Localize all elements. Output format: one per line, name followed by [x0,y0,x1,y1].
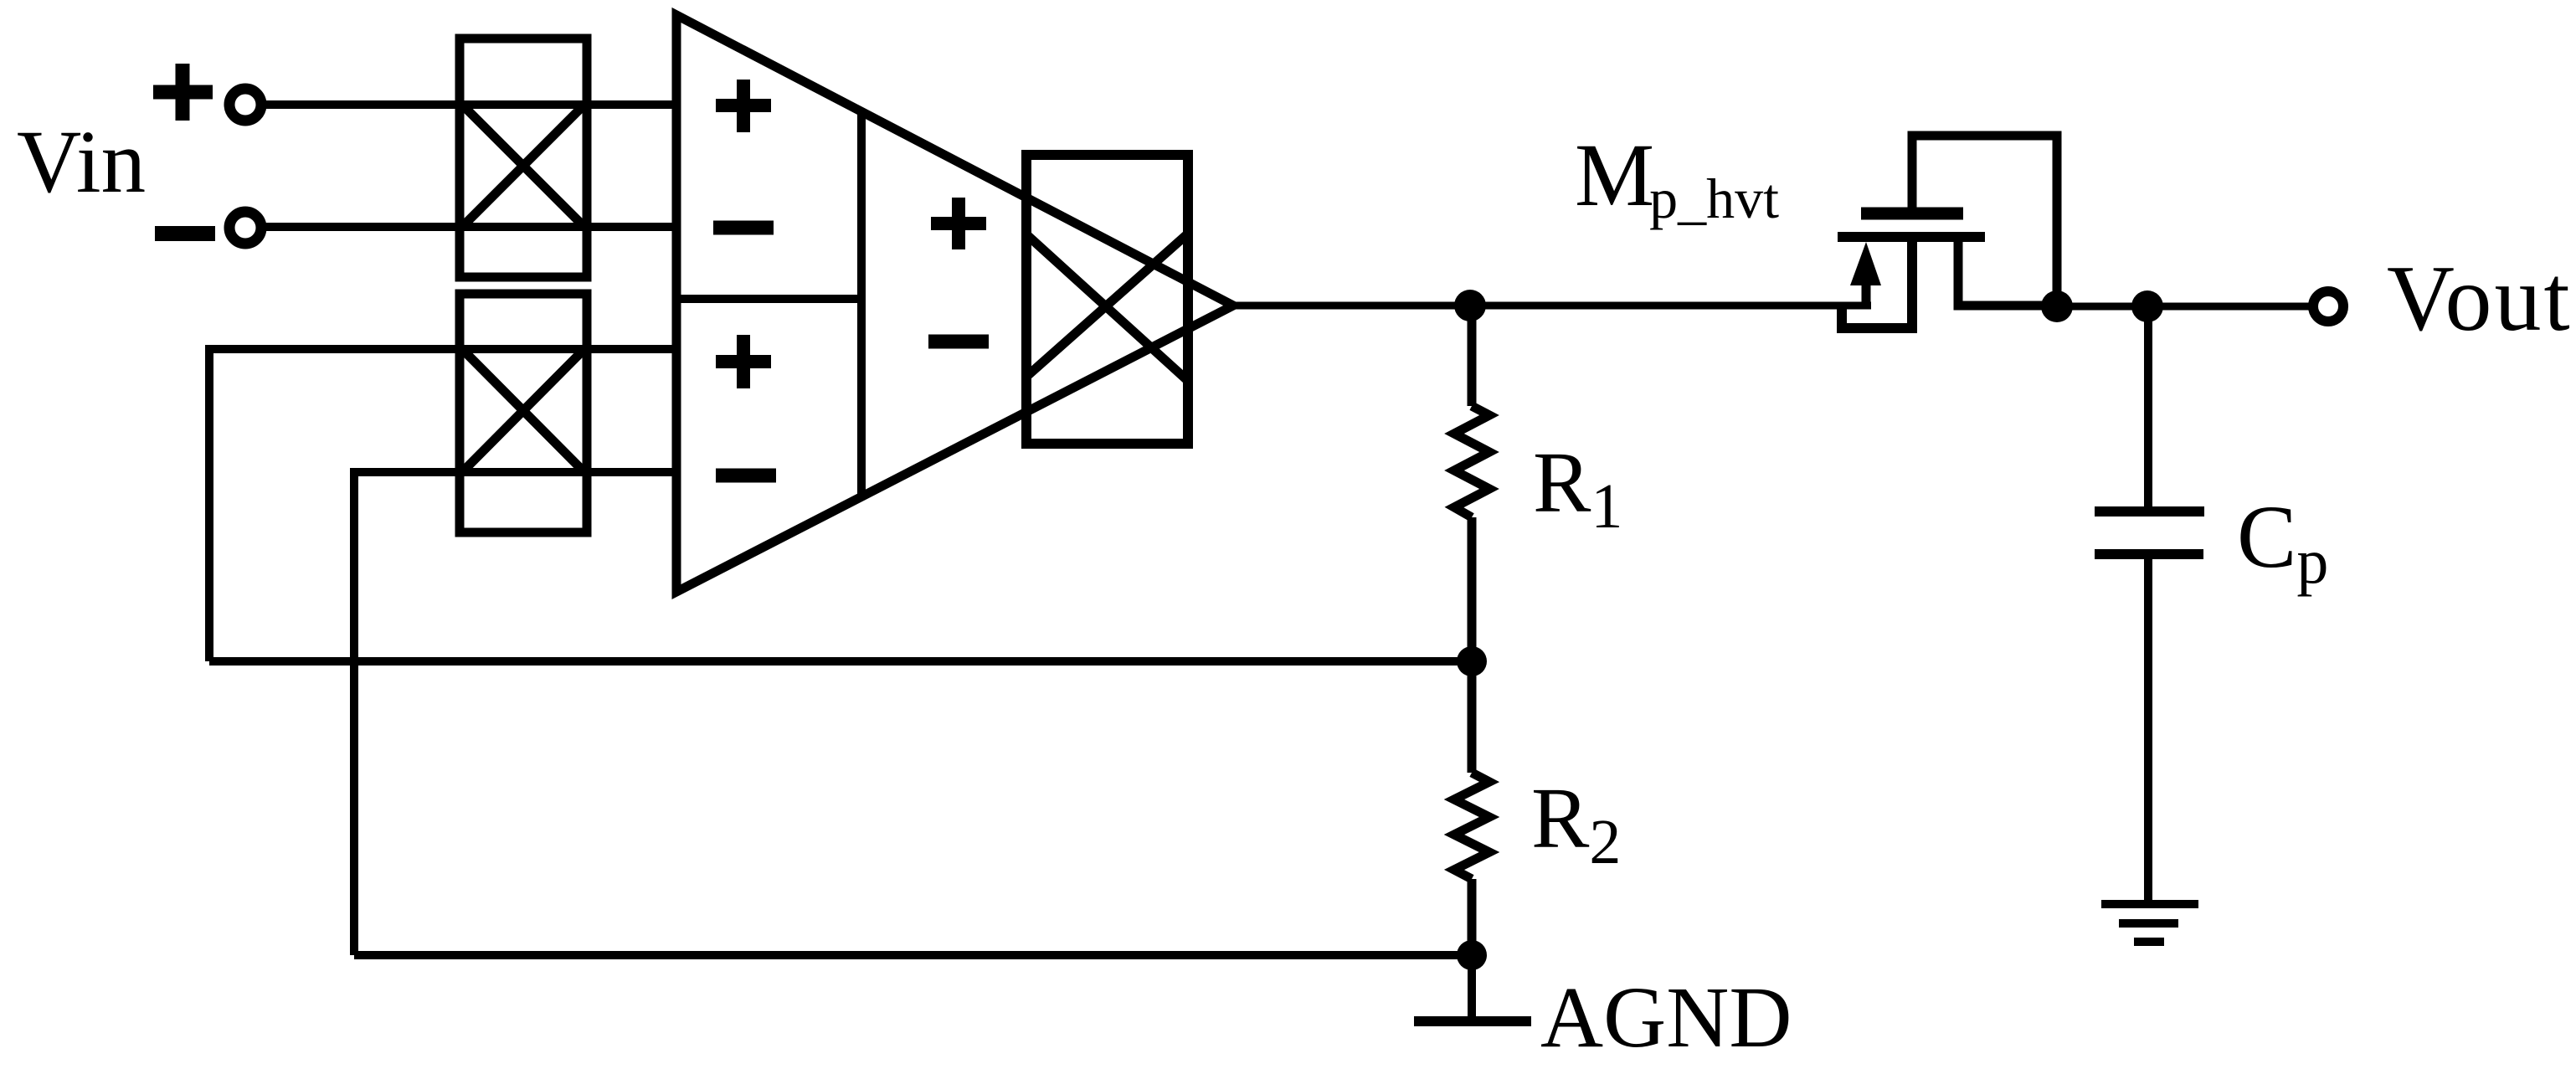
node R1 tap [1454,290,1486,321]
op-amp second stage minus [928,335,989,349]
wire amp output rail [1233,302,1871,310]
op-amp input minus (lower section) [716,469,776,483]
terminal Vin- [229,212,261,244]
wire Vin+ to amp [265,100,676,109]
transistor Mp_hvt gate bar [1861,208,1963,220]
svg-text:AGND: AGND [1540,969,1792,1066]
chopper CH3 cross [1026,234,1188,381]
ground AGND bar [1414,1016,1531,1026]
op-amp second stage plus [931,198,986,249]
wire feedback upper horizontal [209,657,1472,666]
resistor R1 [1454,306,1489,661]
chopper CH1 cross [462,105,584,227]
capacitor Cp top plate [2095,506,2204,517]
wire Vin- to amp [265,223,676,231]
op-amp input plus (lower section) [716,335,771,388]
chopper CH1 input box [460,39,587,277]
ground AGND stem [1468,955,1476,1021]
wire feedback lower [354,472,676,955]
transistor Mp_hvt source hook [1842,242,1912,328]
op-amp U1 inner vertical [857,112,866,496]
wire feedback upper [209,349,676,661]
op-amp input plus (top) [716,80,771,132]
transistor Mp_hvt channel bar [1838,232,1985,242]
chopper CH2 cross [462,349,584,472]
capacitor Cp bottom plate [2095,549,2203,559]
resistor R2 [1454,661,1489,955]
op-amp input minus (top) [713,221,774,235]
svg-text:Vout: Vout [2387,247,2573,351]
transistor Mp_hvt source arrow [1850,242,1881,285]
chopper CH3 output box [1026,155,1188,444]
ground under Cp [2101,904,2198,942]
terminal Vout [2313,291,2343,321]
node Cp tap [2131,290,2163,322]
op-amp U1 triangle [676,15,1233,592]
wire Cp branch upper [2144,306,2152,509]
wire Cp branch lower [2144,557,2152,904]
minus polarity mark [155,226,215,241]
chopper CH2 feedback box [460,294,587,532]
transistor Mp_hvt gate wire loop [1912,136,2057,306]
node feedback upper junction [1457,646,1487,676]
svg-text:Vin: Vin [17,113,146,212]
node feedback lower junction [1457,940,1487,970]
op-amp U1 stage divider [676,295,861,303]
wire drain to Vout [2057,303,2310,311]
wire feedback lower horizontal [354,951,1472,959]
plus polarity mark [153,64,213,121]
terminal Vin+ [229,89,261,121]
transistor Mp_hvt drain stub [1958,239,2057,306]
node drain junction [2041,290,2073,322]
